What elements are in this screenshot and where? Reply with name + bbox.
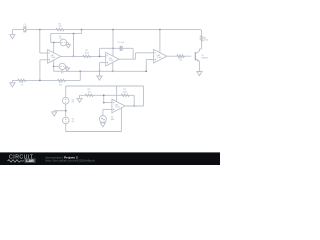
- svg-text:175: 175: [179, 60, 183, 62]
- svg-text:10k: 10k: [59, 85, 63, 87]
- svg-text:TL081: TL081: [115, 107, 120, 109]
- svg-text:9V: 9V: [72, 102, 75, 104]
- svg-text:100k: 100k: [123, 91, 128, 93]
- svg-text:SIN: SIN: [111, 119, 115, 121]
- svg-text:9V: 9V: [61, 72, 64, 74]
- svg-text:1k: 1k: [21, 85, 24, 87]
- svg-text:2N3904: 2N3904: [201, 57, 208, 59]
- svg-text:9V: 9V: [72, 121, 75, 123]
- svg-text:10k: 10k: [58, 26, 62, 28]
- svg-text:100k: 100k: [85, 52, 90, 54]
- svg-text:TL081: TL081: [109, 60, 114, 62]
- svg-text:http://circuitlab.com/c425j3vb: http://circuitlab.com/c425j3vbfjuub: [46, 159, 96, 163]
- svg-text:TL081: TL081: [51, 57, 56, 59]
- svg-text:100k: 100k: [204, 40, 208, 42]
- svg-text:1uF: 1uF: [23, 26, 27, 28]
- svg-text:LAB: LAB: [26, 159, 34, 163]
- svg-text:10k: 10k: [88, 91, 92, 93]
- svg-text:C2 1uF: C2 1uF: [118, 42, 126, 44]
- svg-text:TL081: TL081: [157, 57, 162, 59]
